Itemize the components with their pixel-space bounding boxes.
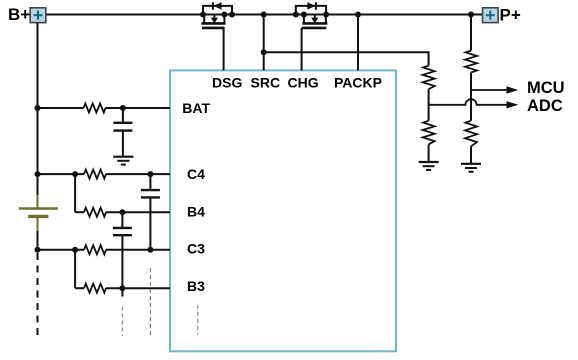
svg-text:DSG: DSG xyxy=(212,75,242,91)
wire: C4 to B4 tap vertical xyxy=(74,174,76,212)
wire: B3 line xyxy=(75,287,170,289)
svg-text:SRC: SRC xyxy=(251,75,281,91)
wire: C3 to B3 tap vertical xyxy=(74,250,76,288)
resistor R3 (P+ divider top) xyxy=(465,51,477,73)
resistor R-C4 xyxy=(84,170,106,179)
wire: C4 line xyxy=(38,173,171,175)
resistor R1 (SRC divider top) xyxy=(423,66,435,90)
wire: Q2 gate lead to CHG pin xyxy=(301,28,303,71)
resistor R2 (SRC divider bottom) xyxy=(423,121,435,145)
wire: PACKP vertical xyxy=(357,15,359,71)
wire: P+ divider drop xyxy=(470,15,472,51)
resistor R4 (P+ divider bottom) xyxy=(465,121,477,147)
ground (left divider) xyxy=(419,162,439,170)
continuation dashes (gray) below C3 cap column xyxy=(149,268,151,336)
wire: BAT line xyxy=(38,107,171,109)
wire: main battery vertical from B+ xyxy=(37,23,39,196)
continuation dashes (gray) inside IC xyxy=(197,305,199,335)
arrow to ADC xyxy=(507,101,519,108)
capacitor C-C4 (C4 to C3) xyxy=(141,174,160,250)
IC box U1 xyxy=(170,70,396,351)
mosfet Q1 DSG: channel and gate xyxy=(201,15,225,28)
svg-text:ADC: ADC xyxy=(527,97,563,115)
mosfet Q1 DSG: body-diode loop xyxy=(203,6,232,15)
svg-text:B4: B4 xyxy=(187,203,205,219)
arrow to MCU xyxy=(507,86,519,93)
terminal B+ xyxy=(30,8,46,23)
svg-text:BAT: BAT xyxy=(182,100,210,116)
mosfet Q2 CHG: body-diode loop xyxy=(296,6,326,15)
terminal P+ xyxy=(483,8,499,23)
svg-text:CHG: CHG xyxy=(288,75,319,91)
wire: SRC divider middle xyxy=(428,89,430,121)
junction dots: battery column xyxy=(35,105,154,291)
wire: dashed continuation below battery stack xyxy=(37,253,39,338)
capacitor C-B4 (B4 to B3) xyxy=(113,212,132,288)
svg-text:B3: B3 xyxy=(187,278,205,294)
junction dots: top rail xyxy=(200,12,474,18)
resistor R-B4 xyxy=(84,208,106,217)
wire: top rail B+ to P+ xyxy=(46,14,483,16)
wire: ADC tap with hop over P+ divider xyxy=(429,99,507,105)
svg-text:C3: C3 xyxy=(187,241,205,257)
svg-text:PACKP: PACKP xyxy=(334,75,382,91)
svg-text:MCU: MCU xyxy=(527,79,565,97)
resistor R-B3 xyxy=(84,284,106,293)
svg-text:B+: B+ xyxy=(8,5,30,24)
continuation dashes (gray) below B3 xyxy=(121,307,123,337)
resistor R-BAT xyxy=(84,104,106,113)
wire: stub below B3 junction xyxy=(121,288,123,296)
wire: MCU tap xyxy=(471,89,507,91)
svg-text:C4: C4 xyxy=(187,166,205,182)
battery cell BT1 xyxy=(19,195,58,231)
mosfet Q2 CHG: channel and gate xyxy=(302,15,328,28)
ground for BAT filter xyxy=(113,157,133,165)
diode D1 (in Q1 loop, cathode left) xyxy=(213,2,222,10)
junction dot: SRC sense tap xyxy=(261,49,267,55)
svg-text:P+: P+ xyxy=(500,6,521,25)
wire: SRC vertical xyxy=(263,15,265,71)
wire: P+ divider middle xyxy=(470,73,472,121)
ground (right divider) xyxy=(461,164,481,172)
resistor R-C3 xyxy=(84,245,106,254)
capacitor C-BAT xyxy=(113,108,132,156)
wire: B4 line xyxy=(75,211,170,213)
wire: C3 line xyxy=(38,249,171,251)
wire: SRC horizontal to divider xyxy=(264,52,429,65)
wire: Q1 gate lead to DSG pin xyxy=(223,28,225,71)
wire to ground (right divider) xyxy=(470,146,472,163)
wire to ground (left divider) xyxy=(428,144,430,161)
diode D2 (in Q2 loop, cathode right) xyxy=(307,2,316,10)
